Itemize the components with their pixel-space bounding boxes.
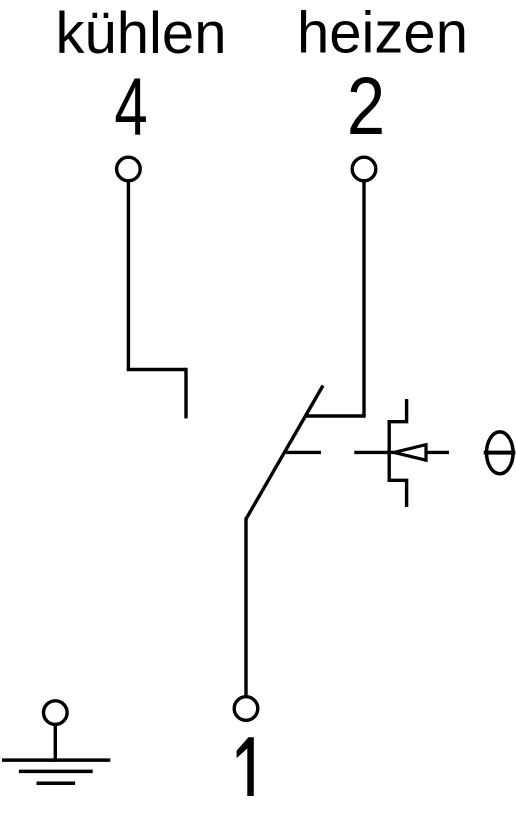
- svg-text:kühlen: kühlen: [56, 1, 227, 66]
- mechanical linkage dash: [286, 451, 321, 454]
- earth ground: terminal circle: [44, 701, 68, 725]
- terminal 1: [234, 697, 258, 721]
- mechanical linkage line (left of arrow): [354, 451, 394, 454]
- mechanical linkage line (right of arrow): [426, 451, 449, 454]
- pin number 1: [237, 737, 254, 796]
- arrowhead (hollow, pointing left): [394, 445, 426, 461]
- wire to terminal 1 (vertical): [244, 518, 247, 697]
- wire from terminal 2 (vertical): [362, 181, 365, 416]
- fixed contact 2 (horizontal foot): [305, 414, 366, 417]
- fixed contact 4 (stub): [184, 368, 187, 419]
- theta symbol (temperature) ellipse: [487, 432, 514, 474]
- terminal 2: [352, 157, 376, 181]
- wire from terminal 4 (vertical): [127, 181, 130, 370]
- earth ground: middle bar: [19, 770, 93, 774]
- switch arm (moving contact): [246, 386, 323, 520]
- terminal 4: [117, 157, 141, 181]
- svg-text:heizen: heizen: [297, 1, 468, 66]
- wire jog (horizontal): [127, 368, 186, 371]
- earth ground: stem: [54, 724, 57, 761]
- thermal actuator element: [389, 399, 406, 507]
- earth ground: top bar: [2, 758, 110, 762]
- theta symbol crossbar: [484, 451, 516, 455]
- earth ground: bottom bar: [37, 782, 76, 786]
- svg-text:4: 4: [114, 61, 147, 152]
- svg-text:2: 2: [347, 60, 385, 152]
